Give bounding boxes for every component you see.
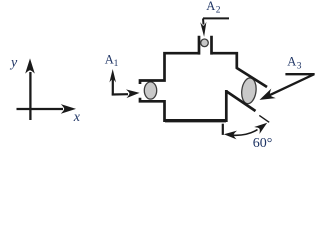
roller top (gray ball in top slot)	[201, 39, 209, 47]
svg-text:3: 3	[297, 61, 302, 71]
force A1 vertical arrow	[112, 78, 114, 96]
svg-text:y: y	[9, 56, 18, 71]
roller right (gray ellipse in slanted slot)	[240, 77, 257, 104]
svg-text:x: x	[73, 110, 81, 125]
thin 60-degree reference line (extension of lower jaw)	[259, 115, 269, 122]
force A2 bent arrow (tail right, shaft down)	[203, 18, 229, 24]
y axis	[29, 72, 31, 120]
vertical reference line below corner	[222, 124, 224, 135]
force A1 horizontal arrow	[112, 93, 128, 96]
svg-text:1: 1	[114, 59, 119, 69]
angle arc with arrowheads	[233, 130, 258, 136]
bottom edge thicker overdraw	[165, 119, 226, 122]
force A3 bent arrow (tail horizontal, shaft down-left)	[269, 74, 314, 96]
body outline (bracket)	[140, 36, 267, 121]
svg-text:2: 2	[216, 5, 221, 15]
svg-text:A: A	[105, 52, 114, 66]
svg-text:A: A	[287, 54, 296, 68]
roller left (gray ellipse in left slot)	[144, 82, 156, 99]
svg-text:A: A	[206, 0, 215, 13]
svg-text:60°: 60°	[253, 136, 273, 150]
x axis	[17, 108, 64, 110]
